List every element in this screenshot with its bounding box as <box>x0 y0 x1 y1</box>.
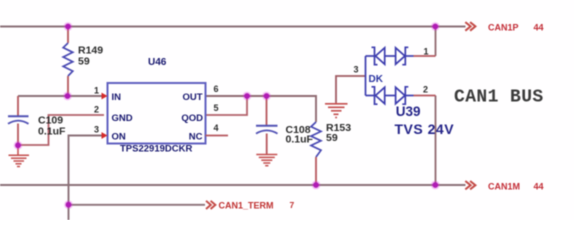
wire OUT net <box>206 96 317 122</box>
TVS branch1 lead left <box>366 55 375 57</box>
node junction top rail CAN1P <box>431 22 440 31</box>
wire bottom rail net CAN1M <box>0 184 466 186</box>
node junction CAN1_TERM <box>64 200 73 209</box>
svg-text:TPS22919DCKR: TPS22919DCKR <box>120 144 192 155</box>
svg-text:0.1uF: 0.1uF <box>38 126 66 138</box>
node junction IN wire <box>63 92 72 101</box>
wire top rail net CAN1P <box>0 26 466 28</box>
wire GND jog <box>18 115 104 145</box>
resistor R153 body <box>311 122 321 157</box>
TVS D2b cathode bar <box>402 87 408 104</box>
TVS branch2 lead right <box>405 95 413 97</box>
svg-text:59: 59 <box>326 132 338 144</box>
svg-text:QOD: QOD <box>181 113 203 124</box>
TVS pin2 stub <box>414 95 436 97</box>
node junction QOD-OUT <box>243 92 252 101</box>
node junction top rail R149 <box>64 22 73 31</box>
svg-text:DK: DK <box>369 74 384 85</box>
ground below C108 <box>256 154 277 166</box>
svg-text:2: 2 <box>94 105 99 115</box>
TVS diode U39 symbol <box>366 47 414 104</box>
svg-text:44: 44 <box>534 181 544 191</box>
svg-text:U46: U46 <box>148 57 167 68</box>
svg-text:CAN1 BUS: CAN1 BUS <box>454 88 544 108</box>
svg-text:CAN1P: CAN1P <box>488 23 519 33</box>
U46 pin IN arrow <box>102 93 108 100</box>
TVS pin1 stub <box>414 55 436 57</box>
svg-text:NC: NC <box>189 132 203 143</box>
svg-text:59: 59 <box>78 56 90 68</box>
svg-text:U39: U39 <box>396 104 421 119</box>
svg-text:IN: IN <box>112 92 122 103</box>
svg-text:0.1uF: 0.1uF <box>286 134 314 146</box>
svg-text:GND: GND <box>112 113 133 124</box>
ground at TVS pin3 <box>325 103 348 118</box>
wire IN net horizontal <box>18 95 104 97</box>
svg-text:1: 1 <box>94 86 99 96</box>
resistor R153 lead bottom <box>315 157 317 185</box>
svg-text:2: 2 <box>423 85 428 95</box>
TVS D1b cathode bar <box>402 47 408 64</box>
svg-text:ON: ON <box>112 132 126 143</box>
TVS branch1 middle <box>385 55 396 57</box>
TVS D1a triangle <box>376 48 385 64</box>
TVS D2a triangle <box>376 87 385 103</box>
IC U46 load switch TPS22919 body <box>108 83 206 144</box>
node junction C108-OUT <box>262 92 271 101</box>
TVS branch2 middle <box>385 95 396 97</box>
svg-text:44: 44 <box>534 23 544 33</box>
off-page connector CAN1M chevron <box>465 181 475 189</box>
node junction CAN1M rail <box>431 181 440 190</box>
TVS D2a cathode bar <box>372 87 378 104</box>
wire TVS pin3 <box>336 76 366 103</box>
capacitor C108 stem bottom <box>266 134 268 154</box>
resistor R149 body <box>63 43 73 76</box>
TVS left vertical <box>365 56 367 96</box>
capacitor C109 plates <box>8 116 29 124</box>
svg-text:4: 4 <box>214 123 219 133</box>
svg-text:3: 3 <box>94 125 99 135</box>
U46 pin NC stub <box>206 135 229 137</box>
wire ON net <box>69 136 105 221</box>
capacitor C109 stem bottom <box>17 124 19 146</box>
off-page connector CAN1P chevron <box>465 22 475 31</box>
svg-text:OUT: OUT <box>182 92 202 103</box>
node junction C109 ground <box>14 141 23 150</box>
TVS branch1 lead right <box>405 55 413 57</box>
off-page connector CAN1_TERM chevron <box>206 201 215 209</box>
capacitor C108 plates <box>256 126 278 134</box>
svg-text:CAN1_TERM: CAN1_TERM <box>219 201 274 211</box>
wire QOD jog <box>206 96 248 115</box>
wire TVS pin1 vertical <box>435 27 437 57</box>
TVS D1a cathode bar <box>372 47 378 64</box>
TVS branch2 lead left <box>366 95 375 97</box>
svg-text:6: 6 <box>214 84 219 94</box>
svg-text:3: 3 <box>354 65 359 75</box>
wire TVS pin2 vertical <box>435 96 437 186</box>
svg-text:5: 5 <box>214 103 219 113</box>
capacitor C109 stem top <box>17 96 19 116</box>
node junction R153 bottom rail <box>312 181 321 190</box>
ground below C109 <box>9 145 30 167</box>
svg-text:TVS 24V: TVS 24V <box>395 121 455 137</box>
capacitor C108 stem top <box>266 96 268 125</box>
TVS D1b triangle <box>396 48 405 64</box>
wire CAN1_TERM <box>69 204 206 206</box>
TVS D2b triangle <box>396 87 405 103</box>
svg-text:CAN1M: CAN1M <box>488 181 520 191</box>
resistor R149 lead bottom <box>67 76 69 96</box>
svg-text:1: 1 <box>424 47 429 57</box>
resistor R149 lead top <box>67 27 69 44</box>
U46 pin ON arrow <box>102 132 108 139</box>
svg-text:7: 7 <box>290 200 295 210</box>
